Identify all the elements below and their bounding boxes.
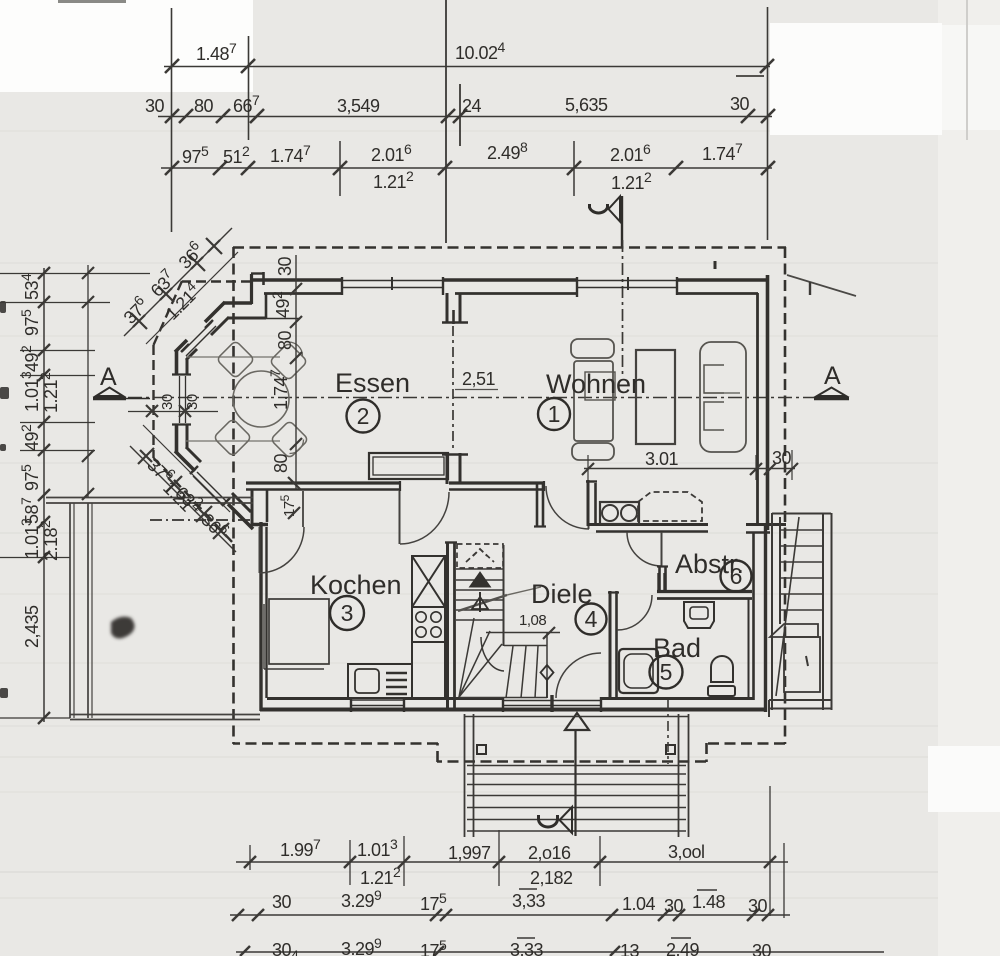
bay upper window glazing <box>182 322 212 352</box>
extension line x=340 row3 <box>339 141 341 196</box>
stair direction diagonal <box>458 595 507 611</box>
interior wall Essen/Wohnen lower stub <box>446 453 449 484</box>
white patch top-left <box>0 0 253 92</box>
edge smudges left <box>0 301 9 698</box>
side exterior stair east: rails <box>772 513 832 710</box>
svg-text:3,ool: 3,ool <box>668 842 705 862</box>
bay diagonal labels lower <box>143 452 233 543</box>
chair alignment lines in bay <box>186 357 280 441</box>
posts on envelope line <box>477 745 486 754</box>
door pivot diamond in Diele <box>541 665 554 680</box>
svg-text:3.299: 3.299 <box>341 935 382 956</box>
bay lower diagonal inner segments <box>186 447 201 462</box>
extension line left of top dims <box>171 8 173 232</box>
roofline top right <box>787 275 856 296</box>
Bad west wall <box>608 591 619 700</box>
svg-text:2,o16: 2,o16 <box>528 843 571 863</box>
interior wall Essen/Diele horizontal <box>246 481 544 491</box>
parapet extension line <box>266 318 300 320</box>
armchair / second sofa in Wohnen <box>700 342 746 452</box>
staircase up arrow <box>470 572 491 612</box>
dim row 3 ticks <box>165 161 775 175</box>
laundry double sink in alcove <box>600 502 639 524</box>
interior wall Essen/Wohnen upper stub <box>442 293 468 484</box>
top exterior wall inner face <box>264 292 342 295</box>
stray scan mark near row1 end <box>736 75 764 77</box>
white patch bottom-right <box>928 746 1000 812</box>
section marker A left <box>93 363 150 399</box>
terrace bottom edge <box>70 715 260 720</box>
front stair treads <box>467 766 686 832</box>
extension line right x=767 <box>767 7 769 240</box>
Abstr/Bad wall horizontal <box>657 573 752 599</box>
svg-text:30: 30 <box>748 896 768 916</box>
Bad washbasin <box>684 602 714 628</box>
terrace top double edge <box>46 498 253 504</box>
bay diagonal dim line upper <box>124 228 238 344</box>
svg-text:1.212: 1.212 <box>360 864 401 888</box>
svg-text:1.04: 1.04 <box>622 894 656 914</box>
door to Abstr swing <box>627 532 662 566</box>
coffee table in Wohnen <box>636 350 675 444</box>
partition stub below diamond <box>546 680 548 698</box>
alcove counter / Abstr top wall <box>589 523 708 526</box>
svg-text:13: 13 <box>620 941 640 956</box>
dining chair SW <box>213 418 251 456</box>
left dim ticks outer <box>38 267 50 724</box>
extension line x=575 row3 <box>573 141 575 196</box>
kitchen sink unit <box>348 664 412 698</box>
terrace west double edge <box>70 503 92 718</box>
window Wohnen north: glazing lines <box>577 280 677 282</box>
dim row 1 line <box>164 66 770 68</box>
kitchen stove <box>412 607 445 642</box>
entrance door threshold <box>503 700 601 702</box>
room number 1 <box>538 398 570 430</box>
pier stub in Diele below wall <box>534 483 546 527</box>
opening width label 2,51 <box>455 369 498 390</box>
svg-text:1.013: 1.013 <box>357 836 398 860</box>
bay west window jambs <box>172 373 191 375</box>
bay top inner cap <box>228 317 266 320</box>
svg-text:30: 30 <box>752 941 772 956</box>
svg-text:30: 30 <box>272 892 292 912</box>
bathtub <box>619 649 658 693</box>
window Wohnen north jambs <box>576 277 578 297</box>
door-position symbol top <box>590 196 623 248</box>
entrance door swing into Diele <box>556 653 601 698</box>
bottom row B labels <box>272 887 768 916</box>
svg-text:30: 30 <box>664 896 684 916</box>
bay window (Erker) walls <box>172 302 266 529</box>
right exterior wall <box>746 275 786 712</box>
bottom dim extension verticals <box>250 786 784 918</box>
bottom row A labels <box>280 836 705 863</box>
svg-text:2.49: 2.49 <box>666 940 700 956</box>
central staircase dashed headroom box <box>457 544 503 568</box>
axis line below bath <box>667 700 669 764</box>
interior chain labels <box>267 256 295 473</box>
bottom dim row A line <box>236 861 788 863</box>
right wall jog to exterior stair <box>746 523 786 526</box>
room number 6 <box>721 561 752 592</box>
bay west window glazing <box>179 376 181 423</box>
dashed outline around bay window <box>154 281 252 543</box>
wall thickness dim 17 below Essen wall <box>278 477 300 519</box>
central staircase lower run treads <box>459 633 547 698</box>
bay lower diagonal outer segments <box>175 451 195 471</box>
central staircase straight treads <box>456 569 503 620</box>
door Diele-Wohnen swing <box>546 486 589 529</box>
bottom row A ticks <box>244 856 776 868</box>
bottom row C ticks <box>240 946 620 956</box>
svg-text:3,33: 3,33 <box>512 891 546 911</box>
bay diagonal labels upper <box>117 237 208 328</box>
faint page edge line top right <box>966 0 968 140</box>
svg-text:3.299: 3.299 <box>341 887 382 911</box>
bottom row B ticks <box>232 909 774 921</box>
window Essen north: glazing lines <box>342 280 443 282</box>
side stair landing trapezoid <box>770 624 818 637</box>
dim row 2 ticks <box>165 109 775 123</box>
extension line x=446 (axis above house) <box>445 0 447 243</box>
chimney axis dash-dot vertical <box>622 240 624 376</box>
sideboard in Essen <box>369 453 448 479</box>
interior dim chain in Essen <box>290 255 302 489</box>
pencil smudge on terrace <box>111 617 135 639</box>
svg-text:3,33: 3,33 <box>510 940 544 956</box>
kitchen counter right <box>412 642 445 698</box>
central staircase winder treads <box>459 618 504 697</box>
left dim extension lines <box>0 274 150 719</box>
top-left corner jamb notch <box>250 274 253 304</box>
room number 3 <box>330 596 364 630</box>
bay upper diagonal inner segments <box>211 317 229 335</box>
Abstr door jamb stub <box>657 566 668 592</box>
dim row 1 ticks <box>165 59 774 73</box>
Wohnen width dim 3.01 <box>582 448 798 480</box>
kitchen tall cabinet with X <box>412 556 445 607</box>
side stair up diagonal <box>776 517 799 696</box>
bottom exterior wall <box>260 695 766 712</box>
dashed roof envelope <box>233 247 786 762</box>
left inner dimension line <box>87 265 89 497</box>
white patch top-right <box>770 23 942 135</box>
bay west wall outer <box>175 351 179 374</box>
bottom dim row B line <box>230 914 790 916</box>
entrance arrow <box>565 713 589 836</box>
west exterior wall of Kochen <box>251 489 268 711</box>
sofa in Wohnen <box>571 339 615 460</box>
dim row 3 line <box>161 167 772 169</box>
svg-text:2,182: 2,182 <box>530 868 573 888</box>
left dimension line outer <box>0 265 150 724</box>
niche wall corner (Wohnen alcove) <box>586 480 708 532</box>
dining chair NE <box>269 342 307 381</box>
svg-text:304: 304 <box>272 940 299 956</box>
door-position symbol bottom <box>539 807 573 833</box>
svg-text:175: 175 <box>420 937 447 956</box>
svg-text:1.997: 1.997 <box>280 836 321 860</box>
room number 5 <box>650 656 683 689</box>
svg-text:1,997: 1,997 <box>448 843 491 863</box>
bay lower window glazing <box>197 472 226 501</box>
front exterior stair rails <box>464 714 689 837</box>
dashed appliance outline in alcove <box>638 492 702 521</box>
extension line x=460 for 24 dim <box>459 84 461 146</box>
left dim labels rotated <box>18 273 61 648</box>
bay upper diagonal outer segments <box>205 302 225 322</box>
side stair lower landing <box>784 637 820 692</box>
lighter right margin strip <box>938 0 1000 956</box>
small dim 30/30 on section line at bay <box>128 394 218 417</box>
bay diagonal dim line lower <box>130 425 236 552</box>
stair width dim 1.08 <box>486 612 560 639</box>
section line A-A dash-dot <box>128 397 818 399</box>
stairwell left wall <box>445 542 457 710</box>
door Kochen from Diele: jamb <box>302 491 304 527</box>
bottom row A2 labels <box>360 864 573 888</box>
top exterior wall outer face <box>251 261 769 319</box>
bay west wall inner <box>186 359 189 374</box>
bottom row C labels (cut) <box>272 935 772 956</box>
dining chair NW <box>216 340 254 378</box>
stair right edge <box>503 545 505 646</box>
dim row 2 line <box>158 116 772 118</box>
bay upper window jambs <box>205 320 213 328</box>
scan mark top edge <box>58 0 126 3</box>
bay lower window jambs <box>190 466 198 474</box>
svg-text:175: 175 <box>420 890 447 914</box>
side stair treads <box>780 530 823 610</box>
inner corner pier <box>265 294 268 318</box>
axis dash-dot between Essen and Wohnen <box>452 326 454 452</box>
bay top outer cap <box>224 301 252 305</box>
room number 2 <box>347 400 380 433</box>
upper pier above terrace door <box>251 489 254 526</box>
door Kochen leaf and swing <box>260 527 305 573</box>
extension line x=248 <box>248 36 250 140</box>
side stair bottom box <box>769 700 832 717</box>
kitchen table <box>264 599 329 669</box>
section marker A right <box>814 362 849 399</box>
window Essen north jambs <box>341 277 343 295</box>
chimney mark above wall <box>714 261 717 269</box>
bottom dim row C line <box>236 951 884 953</box>
svg-text:1.48: 1.48 <box>692 892 726 912</box>
dining chair SE <box>270 420 308 458</box>
door Diele-Bad swing <box>617 595 652 630</box>
WC <box>708 656 735 696</box>
kitchen south window glazing <box>351 699 404 701</box>
door Diele-Essen leaf and swing <box>400 491 450 544</box>
room number 4 <box>576 604 607 635</box>
dining table round <box>233 371 289 427</box>
axis dash-dot of terrace door <box>150 519 252 521</box>
